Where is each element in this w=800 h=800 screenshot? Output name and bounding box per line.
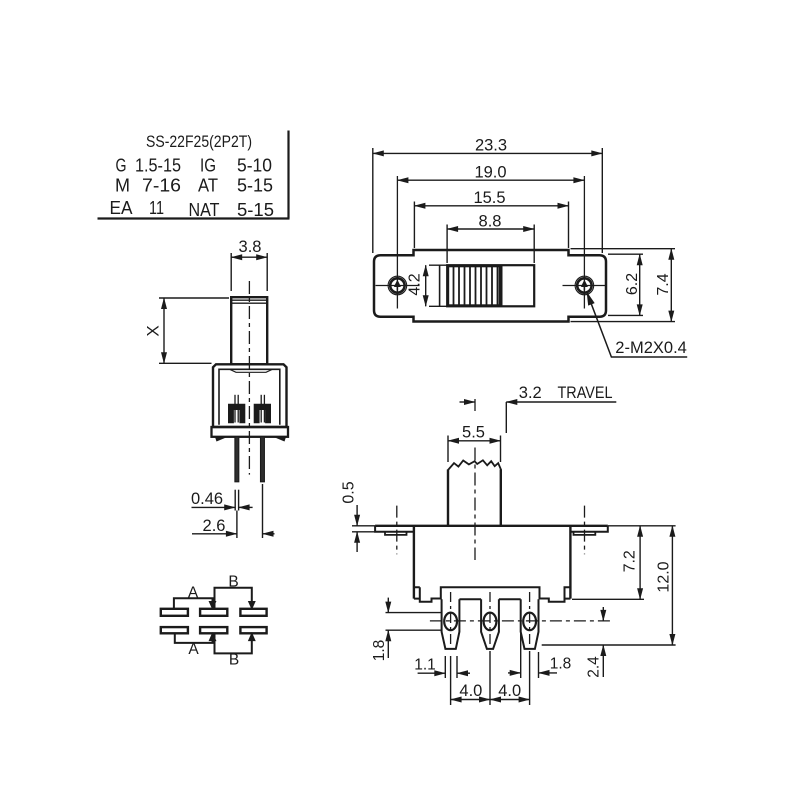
- dimension 23.3: [373, 148, 603, 253]
- svg-text:EA: EA: [110, 198, 133, 218]
- front view pin 3 oval: [523, 613, 536, 631]
- svg-text:15.5: 15.5: [473, 189, 505, 207]
- svg-text:2.6: 2.6: [203, 517, 226, 535]
- svg-text:8.8: 8.8: [479, 213, 502, 231]
- svg-text:5-15: 5-15: [237, 176, 273, 196]
- dimension 2.6: [192, 484, 275, 538]
- svg-text:IG: IG: [200, 156, 216, 176]
- svg-text:G: G: [116, 156, 127, 176]
- svg-text:5-10: 5-10: [237, 156, 272, 176]
- callout 2-M2X0.4 leader: [587, 293, 687, 357]
- schematic labels: [188, 574, 239, 669]
- svg-text:B: B: [228, 574, 238, 591]
- svg-text:0.5: 0.5: [341, 481, 358, 503]
- front view mounting hole centerlines: [397, 506, 585, 555]
- front view base strip bottom: [441, 598, 540, 600]
- table border: [98, 131, 290, 219]
- terminal bar A2 bottom: [161, 627, 188, 633]
- top view right mounting hole: [563, 176, 607, 309]
- svg-text:4.0: 4.0: [459, 682, 482, 700]
- front view pin 1: [442, 599, 460, 649]
- svg-text:23.3: 23.3: [475, 137, 507, 155]
- dimension 7.2: [572, 526, 676, 600]
- wire B top: [215, 588, 252, 609]
- dimension 4.0 4.0: [451, 651, 530, 705]
- dimension 1.1: [418, 656, 470, 678]
- svg-text:1.8: 1.8: [550, 656, 572, 673]
- svg-text:12.0: 12.0: [656, 561, 673, 592]
- dimension X: [159, 298, 229, 363]
- dimension 3.2 TRAVEL: [460, 402, 617, 433]
- wire B bottom: [215, 633, 252, 653]
- svg-text:4.0: 4.0: [498, 682, 521, 700]
- dimension 6.2: [608, 254, 643, 315]
- dimension 1.8 right: [508, 632, 557, 678]
- terminal bar B1 top: [240, 609, 266, 616]
- dimension 3.8: [231, 253, 267, 291]
- side view body top inner dip: [230, 370, 272, 373]
- side view base feet: [216, 437, 286, 441]
- svg-text:1.8: 1.8: [371, 640, 388, 662]
- svg-text:SS-22F25(2P2T): SS-22F25(2P2T): [146, 132, 252, 151]
- side view body inner wall: [219, 369, 280, 425]
- dimension 0.46: [192, 490, 253, 511]
- dimension 1.8 left: [386, 598, 442, 658]
- front view body bottom profile: [414, 587, 571, 601]
- svg-text:19.0: 19.0: [474, 164, 506, 182]
- svg-text:0.46: 0.46: [191, 490, 223, 508]
- front view pin 2 oval: [484, 613, 497, 631]
- svg-text:1.5-15: 1.5-15: [135, 156, 181, 176]
- top view knob: [448, 266, 501, 305]
- dimension 15.5: [414, 202, 568, 249]
- terminal bar B2 bottom: [240, 627, 266, 633]
- side view pin stubs in cavity: [235, 395, 264, 423]
- top view left mounting hole: [376, 176, 420, 309]
- svg-text:6.2: 6.2: [624, 273, 641, 295]
- front view oval centerline: [430, 620, 612, 622]
- front view pin 3: [521, 599, 539, 649]
- terminal bar C2 bottom: [200, 627, 227, 633]
- svg-text:NAT: NAT: [189, 200, 220, 220]
- svg-text:7.4: 7.4: [655, 273, 672, 295]
- dimension 5.5: [448, 436, 501, 463]
- svg-text:5.5: 5.5: [462, 424, 485, 442]
- svg-text:X: X: [144, 325, 163, 336]
- svg-text:A: A: [188, 585, 199, 602]
- side view base strip: [212, 427, 289, 437]
- side view centerline: [248, 281, 250, 475]
- side view left contact: [229, 405, 245, 423]
- svg-text:A: A: [188, 641, 199, 658]
- dimension 19.0: [397, 179, 584, 181]
- svg-text:11: 11: [149, 198, 164, 218]
- dimension 8.8: [447, 225, 534, 264]
- front view pin tip level line: [542, 644, 676, 646]
- front view left flange lip: [385, 532, 407, 535]
- side view right contact: [255, 405, 271, 423]
- wire A top: [174, 598, 213, 609]
- side view pin left: [235, 437, 239, 482]
- dimension 12.0: [671, 526, 673, 645]
- side view pin right: [261, 437, 265, 482]
- front view right flange: [570, 526, 607, 532]
- svg-text:3.8: 3.8: [239, 238, 262, 256]
- wire A bottom: [175, 633, 213, 643]
- front view flange top line: [375, 525, 608, 527]
- top view slot window: [447, 265, 534, 306]
- terminal bar A1 top: [161, 609, 188, 616]
- svg-text:AT: AT: [198, 176, 218, 196]
- svg-text:1.1: 1.1: [414, 657, 436, 674]
- svg-text:2.4: 2.4: [586, 656, 603, 678]
- terminal bar C1 top: [200, 609, 227, 616]
- front view pin centerlines: [451, 592, 530, 648]
- dimension 4.2: [426, 265, 448, 306]
- top view window inner line: [439, 265, 441, 306]
- top view plate outline: [374, 250, 606, 322]
- svg-text:3.2: 3.2: [519, 384, 542, 402]
- svg-text:5-15: 5-15: [237, 200, 274, 220]
- svg-text:B: B: [229, 652, 239, 669]
- front view pin 1 oval: [444, 613, 457, 631]
- front view right flange lip: [574, 532, 596, 535]
- front view body sides: [414, 526, 571, 599]
- side view shaft: [231, 297, 267, 364]
- svg-text:4.2: 4.2: [407, 273, 424, 295]
- dimension 7.4: [571, 249, 676, 322]
- svg-text:TRAVEL: TRAVEL: [558, 384, 613, 402]
- front view shaft with break zigzag: [448, 460, 501, 526]
- svg-text:M: M: [115, 176, 130, 196]
- svg-text:2-M2X0.4: 2-M2X0.4: [615, 339, 687, 357]
- svg-text:7.2: 7.2: [622, 550, 639, 572]
- front view pin 2: [481, 599, 499, 649]
- spec table: [110, 132, 275, 220]
- svg-text:7-16: 7-16: [142, 176, 181, 196]
- side view body outline: [213, 364, 287, 427]
- front view shaft centerline: [474, 448, 476, 561]
- dimension 2.4: [602, 607, 604, 677]
- dimension 0.5: [352, 505, 375, 552]
- front view left flange: [375, 526, 414, 532]
